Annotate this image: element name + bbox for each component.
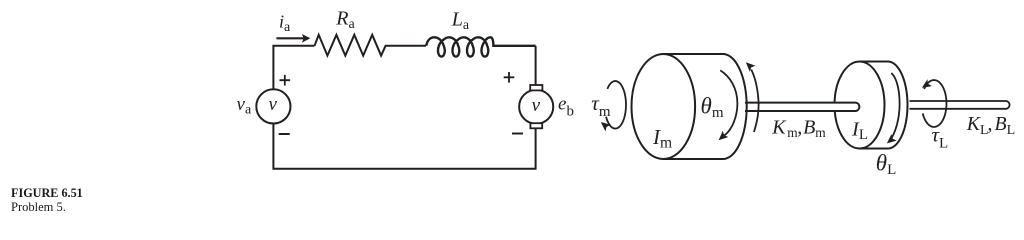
svg-text:v: v <box>269 94 278 115</box>
svg-text:FIGURE 6.51: FIGURE 6.51 <box>11 186 83 200</box>
svg-text:v: v <box>532 95 541 116</box>
svg-text:Problem 5.: Problem 5. <box>11 200 66 214</box>
